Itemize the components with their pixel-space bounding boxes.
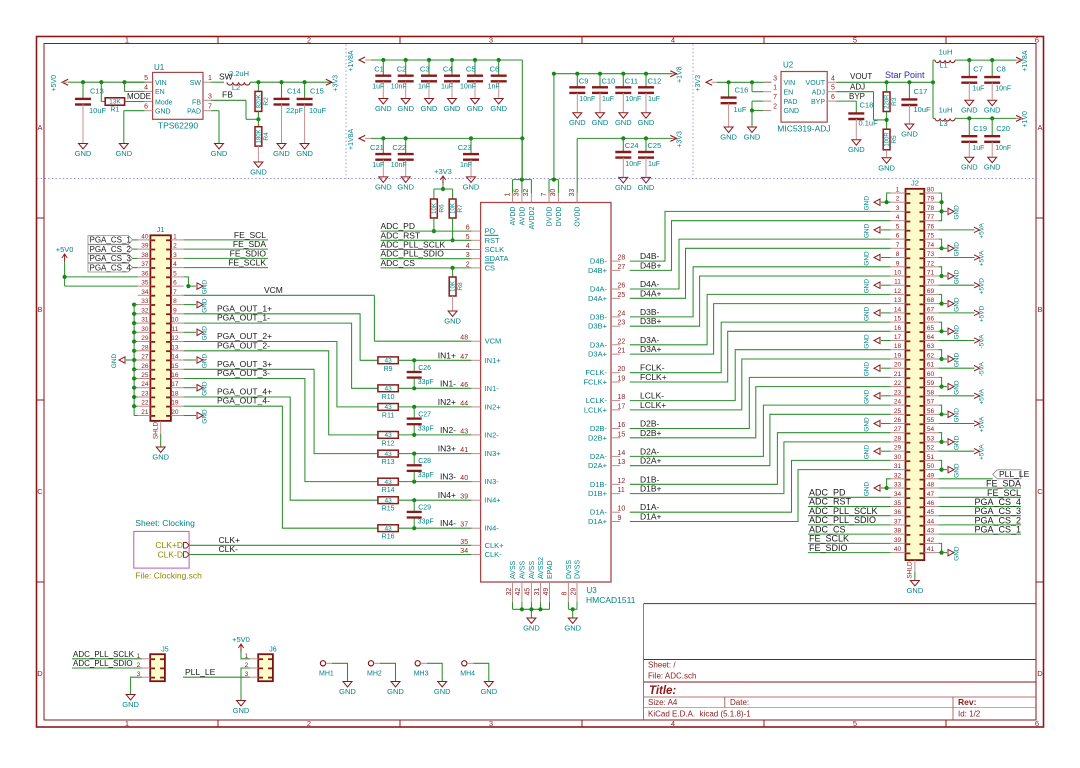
svg-text:+5VA: +5VA — [979, 388, 986, 404]
svg-text:D1B+: D1B+ — [640, 484, 662, 494]
svg-text:31: 31 — [534, 588, 541, 596]
svg-text:Id: 1/2: Id: 1/2 — [958, 710, 981, 719]
svg-text:FCLK+: FCLK+ — [640, 372, 667, 382]
svg-text:43: 43 — [384, 479, 392, 486]
svg-text:33: 33 — [141, 298, 149, 305]
svg-text:IN4-: IN4- — [440, 518, 456, 528]
svg-text:CLK-D: CLK-D — [157, 549, 183, 559]
svg-text:C15: C15 — [310, 87, 324, 96]
svg-text:R7: R7 — [457, 204, 464, 213]
svg-text:70: 70 — [927, 279, 935, 286]
svg-text:GND: GND — [569, 118, 586, 127]
svg-text:1nF: 1nF — [460, 162, 472, 169]
svg-text:L2: L2 — [232, 83, 240, 92]
svg-text:R8: R8 — [457, 282, 464, 291]
svg-text:AVDD: AVDD — [519, 207, 526, 226]
svg-text:C6: C6 — [490, 65, 500, 74]
svg-text:+3V3: +3V3 — [434, 167, 452, 176]
svg-text:52: 52 — [927, 445, 935, 452]
svg-text:8: 8 — [896, 251, 900, 258]
svg-text:12: 12 — [894, 288, 902, 295]
svg-text:1: 1 — [504, 193, 511, 197]
svg-text:SW: SW — [190, 80, 202, 87]
svg-text:DVSS: DVSS — [575, 560, 582, 579]
svg-text:6: 6 — [466, 225, 470, 232]
svg-text:VCM: VCM — [264, 285, 283, 295]
svg-text:GND: GND — [122, 700, 139, 709]
svg-text:20: 20 — [618, 366, 626, 373]
svg-text:GND: GND — [444, 317, 461, 326]
svg-text:KiCad E.D.A. kicad (5.1.8)-1: KiCad E.D.A. kicad (5.1.8)-1 — [648, 710, 751, 719]
svg-text:C25: C25 — [648, 141, 662, 150]
svg-text:OVDD: OVDD — [575, 207, 582, 227]
svg-text:GND: GND — [954, 352, 961, 367]
svg-text:3: 3 — [466, 252, 470, 259]
svg-text:VOUT: VOUT — [850, 72, 872, 81]
svg-text:7: 7 — [541, 193, 548, 197]
svg-text:R5: R5 — [891, 135, 898, 144]
svg-text:GND: GND — [211, 149, 228, 158]
svg-text:8: 8 — [173, 298, 177, 305]
svg-text:15: 15 — [894, 316, 902, 323]
svg-text:40: 40 — [460, 475, 468, 482]
svg-text:1: 1 — [125, 36, 129, 45]
svg-text:D4A+: D4A+ — [640, 288, 662, 298]
svg-text:64: 64 — [927, 334, 935, 341]
svg-text:GND: GND — [744, 133, 761, 142]
svg-text:+5VA: +5VA — [979, 222, 986, 238]
svg-text:43: 43 — [384, 497, 392, 504]
svg-text:32: 32 — [894, 472, 902, 479]
svg-text:D2B+: D2B+ — [588, 433, 608, 442]
svg-text:38: 38 — [894, 528, 902, 535]
svg-text:GND: GND — [615, 183, 632, 192]
svg-text:24: 24 — [894, 399, 902, 406]
svg-text:C26: C26 — [418, 365, 431, 372]
svg-text:7: 7 — [773, 94, 777, 101]
svg-text:IN1+: IN1+ — [485, 356, 502, 365]
svg-text:24: 24 — [618, 310, 626, 317]
svg-text:1uF: 1uF — [648, 161, 660, 168]
svg-text:D1A-: D1A- — [590, 508, 608, 517]
svg-text:-5VA: -5VA — [979, 334, 986, 349]
svg-text:5: 5 — [466, 234, 470, 241]
svg-text:+5VA: +5VA — [979, 250, 986, 266]
svg-text:45: 45 — [525, 588, 532, 596]
svg-text:12: 12 — [618, 478, 626, 485]
svg-text:14: 14 — [894, 306, 902, 313]
svg-text:30: 30 — [141, 326, 149, 333]
svg-text:C16: C16 — [735, 86, 749, 95]
svg-text:22: 22 — [618, 338, 626, 345]
svg-text:GND: GND — [878, 163, 895, 172]
svg-text:VIN: VIN — [155, 80, 167, 87]
svg-text:10: 10 — [894, 270, 902, 277]
svg-text:U1: U1 — [154, 63, 165, 72]
svg-text:24: 24 — [141, 381, 149, 388]
svg-text:36: 36 — [141, 270, 149, 277]
svg-text:38: 38 — [141, 252, 149, 259]
svg-text:GND: GND — [954, 242, 961, 257]
svg-text:FB: FB — [192, 99, 201, 106]
svg-text:LCLK+: LCLK+ — [584, 405, 608, 414]
svg-text:D3B+: D3B+ — [588, 322, 608, 331]
svg-text:C22: C22 — [392, 143, 406, 152]
svg-text:GND: GND — [375, 104, 392, 113]
svg-text:MH2: MH2 — [367, 671, 382, 678]
svg-text:20: 20 — [171, 409, 179, 416]
svg-text:7: 7 — [208, 104, 212, 111]
svg-text:220R: 220R — [885, 94, 891, 109]
svg-text:6: 6 — [144, 104, 148, 111]
svg-text:47: 47 — [927, 491, 935, 498]
svg-text:C4: C4 — [443, 65, 453, 74]
svg-text:A: A — [37, 123, 42, 132]
svg-text:28: 28 — [618, 255, 626, 262]
svg-text:C19: C19 — [973, 124, 987, 133]
svg-text:GND: GND — [864, 334, 871, 349]
svg-text:GND: GND — [564, 624, 581, 633]
svg-text:45: 45 — [927, 509, 935, 516]
svg-text:78: 78 — [927, 205, 935, 212]
svg-text:PGA_OUT_2-: PGA_OUT_2- — [217, 340, 270, 350]
svg-text:D3A+: D3A+ — [588, 350, 608, 359]
svg-text:C: C — [37, 487, 43, 496]
svg-text:54: 54 — [927, 426, 935, 433]
svg-text:PLL_LE: PLL_LE — [999, 469, 1030, 479]
svg-text:GND: GND — [954, 269, 961, 284]
svg-text:10uF: 10uF — [309, 106, 327, 115]
svg-text:SCLK: SCLK — [485, 245, 505, 254]
svg-text:56: 56 — [927, 408, 935, 415]
svg-text:SHLD: SHLD — [153, 422, 160, 440]
svg-text:GND: GND — [434, 687, 451, 696]
svg-text:100R: 100R — [885, 132, 891, 147]
svg-text:33: 33 — [894, 482, 902, 489]
svg-text:C7: C7 — [973, 65, 983, 74]
svg-text:74: 74 — [927, 242, 935, 249]
svg-text:R3: R3 — [891, 97, 898, 106]
svg-text:PGA_CS_3: PGA_CS_3 — [90, 254, 132, 263]
svg-text:10uF: 10uF — [89, 106, 107, 115]
svg-text:D3B-: D3B- — [590, 312, 608, 321]
svg-text:47: 47 — [460, 354, 468, 361]
svg-text:65: 65 — [927, 325, 935, 332]
svg-text:10K: 10K — [451, 281, 457, 292]
svg-text:6: 6 — [831, 94, 835, 101]
svg-text:23: 23 — [141, 391, 149, 398]
svg-text:B: B — [1037, 305, 1042, 314]
svg-text:C: C — [1037, 487, 1043, 496]
svg-text:GND: GND — [954, 325, 961, 340]
svg-text:R2: R2 — [263, 97, 270, 106]
svg-text:49: 49 — [927, 472, 935, 479]
svg-text:13: 13 — [171, 344, 179, 351]
svg-text:10nF: 10nF — [995, 86, 1011, 93]
svg-text:2.2uH: 2.2uH — [229, 69, 249, 78]
svg-text:21: 21 — [894, 371, 902, 378]
svg-text:IN2-: IN2- — [440, 425, 456, 435]
svg-text:1uF: 1uF — [648, 96, 660, 103]
svg-text:IN3+: IN3+ — [485, 449, 502, 458]
svg-text:10nF: 10nF — [625, 161, 641, 168]
svg-text:+5VD: +5VD — [979, 305, 986, 322]
svg-text:+3V3: +3V3 — [333, 75, 340, 92]
svg-text:GND: GND — [202, 353, 209, 368]
svg-text:51: 51 — [927, 454, 935, 461]
svg-text:PGA_OUT_1-: PGA_OUT_1- — [217, 313, 270, 323]
svg-text:5: 5 — [896, 223, 900, 230]
svg-text:R4: R4 — [263, 132, 270, 141]
svg-text:43: 43 — [384, 404, 392, 411]
svg-text:VIN: VIN — [784, 80, 796, 87]
svg-text:72: 72 — [927, 260, 935, 267]
svg-text:3: 3 — [896, 205, 900, 212]
svg-text:63: 63 — [927, 343, 935, 350]
svg-text:GND: GND — [954, 297, 961, 312]
svg-text:PGA_OUT_4-: PGA_OUT_4- — [217, 396, 270, 406]
svg-text:GND: GND — [444, 104, 461, 113]
svg-text:+5VA: +5VA — [979, 444, 986, 460]
svg-text:IN1+: IN1+ — [438, 350, 456, 360]
svg-text:10K: 10K — [451, 203, 457, 214]
svg-text:VCM: VCM — [485, 337, 502, 346]
svg-text:23: 23 — [894, 389, 902, 396]
svg-text:5: 5 — [853, 36, 857, 45]
svg-text:1uF: 1uF — [972, 86, 984, 93]
svg-text:39: 39 — [894, 537, 902, 544]
svg-text:3: 3 — [773, 75, 777, 82]
svg-text:PAD: PAD — [784, 99, 798, 106]
svg-text:2: 2 — [307, 719, 311, 728]
svg-text:AVDD2: AVDD2 — [529, 206, 536, 229]
svg-text:FE_SDIO: FE_SDIO — [809, 543, 848, 553]
svg-text:GND: GND — [954, 408, 961, 423]
svg-text:1uF: 1uF — [372, 84, 384, 91]
svg-text:61: 61 — [927, 362, 935, 369]
svg-text:4: 4 — [896, 214, 900, 221]
svg-text:48: 48 — [927, 482, 935, 489]
svg-text:AVSS: AVSS — [529, 561, 536, 579]
svg-text:19: 19 — [894, 353, 902, 360]
svg-text:3: 3 — [173, 252, 177, 259]
svg-text:GND: GND — [375, 182, 392, 191]
svg-text:GND: GND — [864, 306, 871, 321]
svg-text:D3B+: D3B+ — [640, 316, 662, 326]
svg-text:46: 46 — [460, 382, 468, 389]
svg-text:D2A+: D2A+ — [640, 456, 662, 466]
svg-text:GND: GND — [155, 109, 171, 116]
svg-text:17: 17 — [171, 381, 179, 388]
svg-text:5: 5 — [831, 85, 835, 92]
svg-text:34: 34 — [141, 289, 149, 296]
svg-text:10K: 10K — [432, 203, 438, 214]
svg-text:BYP: BYP — [811, 99, 825, 106]
svg-text:Title:: Title: — [649, 685, 676, 697]
svg-text:1uF: 1uF — [372, 162, 384, 169]
svg-text:16: 16 — [618, 422, 626, 429]
svg-text:16: 16 — [894, 325, 902, 332]
svg-text:C5: C5 — [466, 65, 476, 74]
svg-text:FCLK+: FCLK+ — [583, 378, 607, 387]
svg-text:TPS62290: TPS62290 — [158, 121, 198, 131]
svg-text:+1V8A: +1V8A — [348, 50, 355, 72]
svg-text:1uF: 1uF — [602, 96, 614, 103]
svg-text:R11: R11 — [382, 412, 394, 419]
svg-text:36: 36 — [514, 189, 521, 197]
svg-text:43: 43 — [384, 525, 392, 532]
svg-text:ADC_CS: ADC_CS — [381, 258, 416, 268]
svg-text:32: 32 — [506, 588, 513, 596]
svg-text:6: 6 — [1035, 719, 1039, 728]
svg-text:67: 67 — [927, 306, 935, 313]
svg-text:33pF: 33pF — [418, 379, 434, 386]
svg-text:GND: GND — [864, 445, 871, 460]
svg-text:DVDD: DVDD — [547, 207, 554, 227]
svg-text:25: 25 — [618, 292, 626, 299]
svg-text:11: 11 — [618, 487, 625, 494]
svg-text:GND: GND — [115, 149, 132, 158]
svg-text:7: 7 — [173, 289, 177, 296]
svg-text:10nF: 10nF — [391, 84, 407, 91]
svg-text:43: 43 — [384, 358, 392, 365]
svg-text:C28: C28 — [418, 458, 431, 465]
svg-text:SDATA: SDATA — [485, 254, 509, 263]
svg-text:73: 73 — [927, 251, 935, 258]
svg-text:30: 30 — [550, 189, 557, 197]
svg-text:9: 9 — [173, 307, 177, 314]
svg-text:ADC_PLL_SCLK: ADC_PLL_SCLK — [73, 650, 135, 659]
svg-text:37: 37 — [141, 261, 149, 268]
svg-text:GND: GND — [202, 280, 209, 295]
svg-text:17: 17 — [618, 403, 626, 410]
svg-text:26: 26 — [894, 417, 902, 424]
svg-text:17: 17 — [894, 334, 902, 341]
svg-text:C21: C21 — [370, 143, 384, 152]
svg-text:IN4-: IN4- — [485, 524, 500, 533]
svg-text:69: 69 — [927, 288, 935, 295]
svg-text:PLL_LE: PLL_LE — [185, 667, 216, 677]
svg-text:3: 3 — [489, 719, 493, 728]
svg-text:3: 3 — [208, 94, 212, 101]
svg-text:R1: R1 — [110, 107, 119, 114]
svg-text:57: 57 — [927, 399, 935, 406]
svg-text:820K: 820K — [256, 94, 262, 108]
svg-text:Rev:: Rev: — [958, 697, 977, 707]
svg-text:48: 48 — [460, 335, 468, 342]
svg-text:4: 4 — [144, 84, 148, 91]
svg-text:37: 37 — [894, 518, 902, 525]
svg-text:IN3-: IN3- — [440, 472, 456, 482]
svg-text:15: 15 — [618, 431, 626, 438]
svg-text:J2: J2 — [911, 179, 919, 188]
svg-text:GND: GND — [250, 168, 267, 177]
svg-text:LCLK+: LCLK+ — [640, 400, 666, 410]
svg-text:PGA_OUT_3-: PGA_OUT_3- — [217, 368, 270, 378]
svg-text:9: 9 — [618, 515, 622, 522]
svg-text:GND: GND — [202, 298, 209, 313]
svg-text:50: 50 — [927, 463, 935, 470]
svg-text:11: 11 — [172, 326, 179, 333]
svg-text:R16: R16 — [382, 534, 395, 541]
svg-text:12: 12 — [171, 335, 179, 342]
svg-text:1uF: 1uF — [734, 105, 747, 114]
svg-text:MODE: MODE — [127, 92, 151, 101]
svg-text:Mode: Mode — [155, 99, 173, 106]
svg-text:ADC_PLL_SDIO: ADC_PLL_SDIO — [73, 659, 133, 668]
svg-text:0.1uF: 0.1uF — [859, 119, 879, 128]
svg-text:R6: R6 — [438, 204, 445, 213]
svg-text:PGA_CS_1: PGA_CS_1 — [90, 236, 132, 245]
svg-text:4: 4 — [466, 243, 470, 250]
svg-text:80: 80 — [927, 187, 935, 194]
svg-text:76: 76 — [927, 223, 935, 230]
svg-text:37: 37 — [460, 522, 468, 529]
svg-text:GND: GND — [592, 118, 609, 127]
svg-text:1uH: 1uH — [939, 47, 953, 56]
svg-text:GND: GND — [202, 381, 209, 396]
svg-text:49: 49 — [543, 588, 550, 596]
svg-text:6: 6 — [896, 233, 900, 240]
svg-text:EN: EN — [155, 89, 165, 96]
svg-text:D1A+: D1A+ — [588, 517, 608, 526]
svg-text:+3V3: +3V3 — [677, 131, 684, 148]
svg-text:C9: C9 — [579, 77, 589, 86]
svg-text:41: 41 — [927, 546, 935, 553]
svg-text:25: 25 — [141, 372, 149, 379]
svg-text:D2B+: D2B+ — [640, 428, 662, 438]
svg-text:7: 7 — [896, 242, 900, 249]
svg-text:41: 41 — [460, 447, 468, 454]
svg-text:AVSS2: AVSS2 — [538, 557, 545, 579]
svg-text:44: 44 — [460, 400, 468, 407]
svg-text:SHLD: SHLD — [907, 561, 914, 579]
svg-text:File: ADC.sch: File: ADC.sch — [648, 672, 696, 681]
svg-text:GND: GND — [864, 389, 871, 404]
svg-text:10: 10 — [171, 317, 179, 324]
svg-text:28: 28 — [141, 344, 149, 351]
svg-text:+5V0: +5V0 — [232, 635, 250, 644]
svg-text:GND: GND — [984, 106, 1001, 115]
svg-text:34: 34 — [894, 491, 902, 498]
svg-text:GND: GND — [463, 182, 480, 191]
svg-text:42: 42 — [515, 588, 522, 596]
svg-text:FCLK-: FCLK- — [585, 368, 607, 377]
svg-text:GND: GND — [954, 546, 961, 561]
svg-text:10uF: 10uF — [914, 105, 932, 114]
svg-text:GND: GND — [75, 149, 92, 158]
svg-text:16: 16 — [171, 372, 179, 379]
svg-text:5: 5 — [144, 75, 148, 82]
svg-text:D4B-: D4B- — [590, 257, 608, 266]
svg-text:R10: R10 — [382, 394, 395, 401]
svg-text:33: 33 — [569, 189, 576, 197]
svg-text:AVSS: AVSS — [510, 561, 517, 579]
svg-text:4: 4 — [671, 719, 675, 728]
svg-text:IN1-: IN1- — [440, 378, 456, 388]
svg-text:CLK-: CLK- — [219, 544, 239, 554]
svg-text:22: 22 — [141, 400, 149, 407]
svg-text:GND: GND — [421, 104, 438, 113]
svg-text:5: 5 — [173, 270, 177, 277]
svg-text:28: 28 — [894, 435, 902, 442]
svg-text:AVDD: AVDD — [510, 207, 517, 226]
svg-text:18: 18 — [618, 394, 626, 401]
svg-text:GND: GND — [467, 104, 484, 113]
svg-text:DVSS: DVSS — [566, 560, 573, 579]
svg-text:GND: GND — [901, 130, 918, 139]
svg-text:2: 2 — [466, 261, 470, 268]
